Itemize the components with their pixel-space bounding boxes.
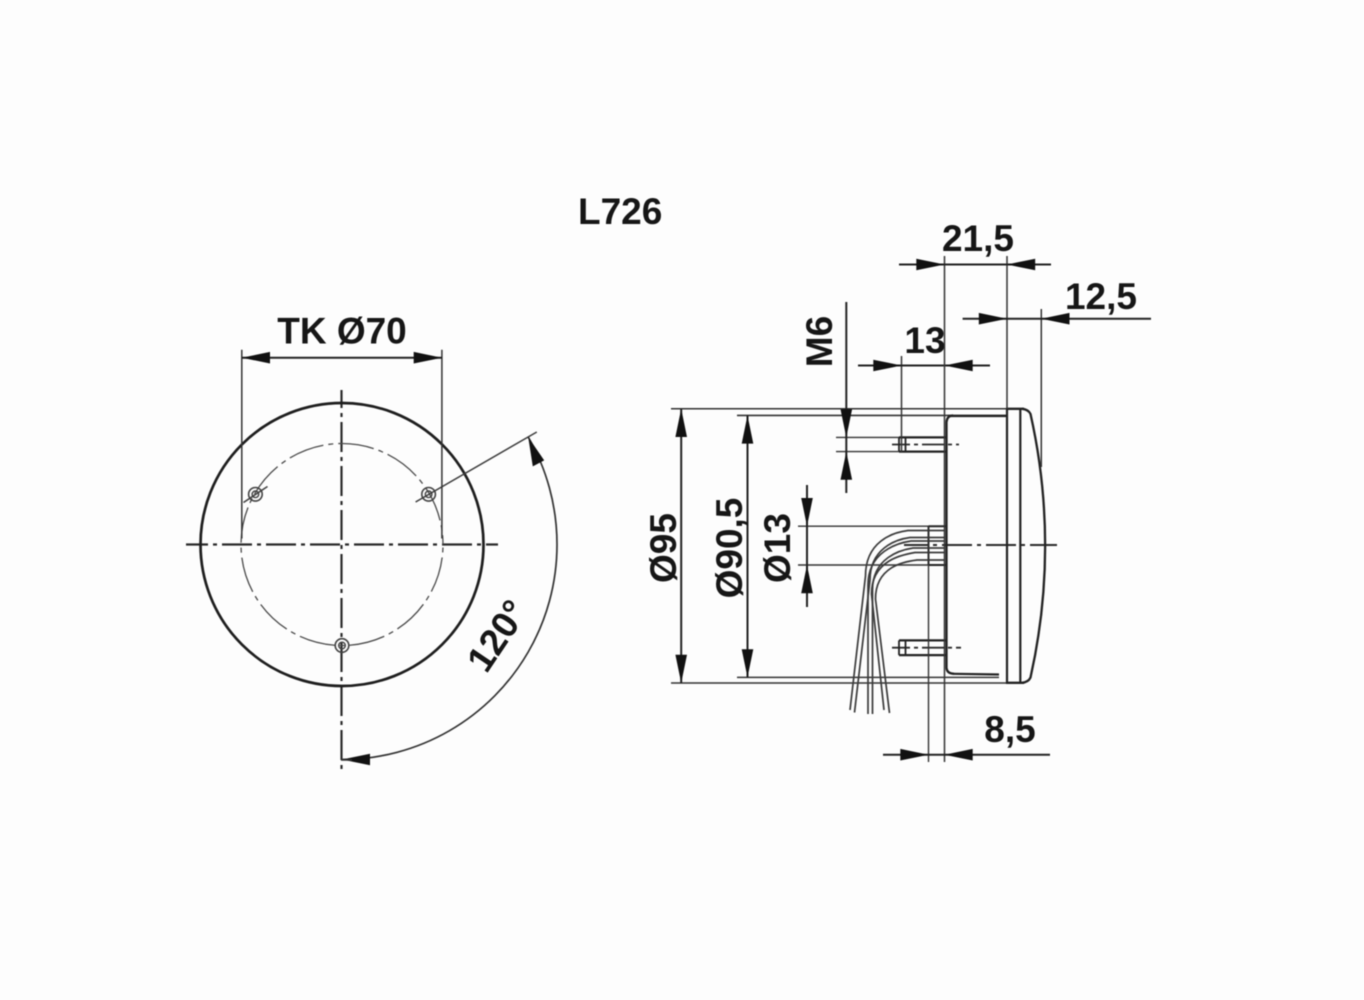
lens rim bottom edge thick (1006, 682, 1024, 684)
lens rim top edge thick (1006, 408, 1024, 410)
main centerline (904, 544, 1057, 546)
M6 arrow down (841, 409, 853, 437)
12,5 arrow right-pointing (979, 313, 1007, 325)
housing top edge thick part (948, 415, 1006, 417)
21,5 arrow left-pointing (1007, 259, 1035, 271)
M6 arrow up (841, 452, 853, 480)
radial leader through right hole (416, 432, 537, 502)
TK dimension line (242, 357, 442, 359)
wires (850, 531, 945, 715)
21,5 extension line left (944, 256, 946, 762)
hole bottom (335, 639, 349, 653)
svg-text:8,5: 8,5 (984, 709, 1035, 750)
Ø90,5 arrow up (742, 415, 754, 443)
arc arrow top (528, 437, 544, 466)
outer circle Ø95 (201, 403, 484, 686)
Ø95 arrow down (675, 655, 687, 683)
svg-text:12,5: 12,5 (1065, 276, 1137, 317)
21,5 extension line right (1006, 256, 1008, 409)
svg-text:Ø95: Ø95 (643, 513, 684, 583)
13 dimension line (858, 365, 990, 367)
bottom stud (899, 640, 946, 655)
svg-text:Ø13: Ø13 (757, 513, 798, 583)
vertical centerline (340, 390, 342, 770)
8,5 arrow right-pointing (900, 749, 928, 761)
Ø13 extension lines (798, 525, 929, 527)
TK arrow left (242, 352, 270, 364)
arc arrow bottom (342, 754, 370, 766)
8,5 dimension line (883, 754, 1050, 756)
M6 extension lines (836, 436, 899, 438)
12,5 extension line right (1040, 309, 1042, 467)
21,5 arrow right-pointing (916, 259, 944, 271)
120 degree arc (342, 437, 557, 760)
Ø95 top extension + lens rim top edge (671, 408, 1024, 410)
horizontal centerline (186, 543, 498, 545)
lens rim front vertical (1019, 409, 1021, 683)
8,5 arrow left-pointing (945, 749, 973, 761)
TK arrow right (414, 352, 442, 364)
lens rim back vertical (1006, 409, 1008, 683)
Ø13 arrow up to bottom edge (801, 565, 813, 593)
svg-text:M6: M6 (799, 316, 840, 367)
Ø95 arrow up (675, 409, 687, 437)
TK dimension extension line left (241, 350, 243, 539)
tick at arc bottom end (341, 759, 352, 761)
13 arrow left-pointing (945, 360, 973, 372)
svg-text:21,5: 21,5 (942, 218, 1014, 259)
Ø90,5 dimension line (747, 415, 749, 677)
cable grommet (929, 526, 947, 565)
13 arrow right-pointing (873, 360, 901, 372)
svg-text:Ø90,5: Ø90,5 (709, 498, 750, 599)
13 dimension extension line (901, 356, 903, 452)
svg-text:L726: L726 (578, 191, 662, 232)
svg-text:TK Ø70: TK Ø70 (277, 311, 407, 352)
Ø95 bottom extension + lens rim bottom edge (671, 682, 1024, 684)
top stud centerline (892, 444, 959, 446)
bottom stud centerline (892, 647, 961, 649)
Ø95 dimension line (680, 409, 682, 683)
Ø13 dimension line (806, 485, 808, 607)
hole top-left (244, 487, 268, 503)
Ø90,5 arrow down (742, 649, 754, 677)
top stud (899, 437, 946, 451)
housing top edge + Ø90,5 top extension (737, 414, 1006, 416)
housing bottom edge (954, 673, 999, 676)
8,5 extension line left (928, 526, 930, 762)
Ø90,5 bottom extension (737, 676, 999, 678)
housing back face (947, 415, 955, 673)
lens dome (1022, 409, 1045, 683)
12,5 arrow left-pointing (1041, 313, 1069, 325)
M6 dimension line (845, 302, 847, 493)
TK dimension extension line right (441, 350, 443, 539)
svg-text:13: 13 (904, 320, 945, 361)
bolt circle TK70 (dash-dot) (241, 444, 443, 646)
Ø13 arrow down to top edge (801, 498, 813, 526)
hole top-right (422, 488, 436, 502)
21,5 dimension line (899, 264, 1051, 266)
12,5 dimension line (963, 318, 1151, 320)
